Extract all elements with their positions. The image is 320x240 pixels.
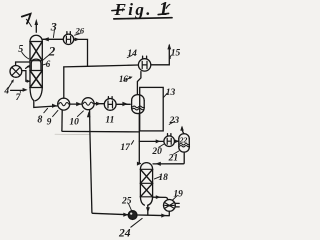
pipe: vertical below exchanger E9 to line 17 [61,110,63,131]
feed pipe 7 into column C1 [11,88,28,92]
box 13 [140,87,164,130]
svg-text:17: 17 [120,143,131,153]
column C18 packing sections [140,169,152,197]
exchanger E19 (circle with X) [164,200,180,212]
exchanger E9 (circle with wavy coil) [58,98,70,110]
label 24 [118,218,142,239]
reboiler exchanger E5 (circle with X) [10,66,22,78]
pipe: reboiler return to column C1 [22,71,31,83]
exchanger E10 (circle with wavy coil) [82,98,94,110]
reflux drum V22 [179,134,190,152]
pipe: down from line into exchanger 9 top [63,67,65,98]
svg-text:7: 7 [16,93,22,103]
label 7 [16,91,22,103]
svg-text:25: 25 [121,197,132,207]
label 15 [170,48,180,58]
pipe 21: drum bottom to column 18 top [153,152,184,166]
condenser U14 (circle with H) [138,56,150,71]
line 17 horizontal [62,131,139,132]
pipe: vertical below exchanger E10 down to bottom loop [87,110,128,217]
label 2 [43,44,56,60]
figure title Fig.1 [112,0,172,20]
column C1 packing section X1 [30,42,42,61]
svg-text:3: 3 [50,20,57,34]
label 1 (top, 7-shaped numeral with leader) [22,14,32,27]
svg-text:15: 15 [171,48,181,58]
pipe 16: condenser 14 down to vessel 12 [137,72,141,95]
flash vessel V12 [132,95,145,114]
column C1 middle chimney tray (item 6) [31,59,41,70]
label 9 [47,110,58,127]
svg-text:10: 10 [69,118,79,128]
bottoms pipe 8 from column C1 [34,101,58,108]
label 4 with arrow [3,79,14,96]
svg-text:2: 2 [48,44,56,59]
svg-text:9: 9 [47,118,52,128]
svg-text:14: 14 [127,49,137,59]
pump P25 (filled circle) [128,211,137,220]
pipe: heater 26 to column C1 top (line 3) [43,37,64,41]
pipe: long line to condenser 14 [64,65,139,67]
pipe E10 to E11 [94,102,104,106]
bottom pipe: pump to exchanger 19 [137,211,169,217]
label 26 [75,26,85,36]
label 22 inside drum [179,135,188,144]
label 25 [121,197,132,211]
label 14 [127,49,137,59]
heater E11 (circle with H symbol) [104,97,116,111]
svg-text:11: 11 [105,115,114,125]
label 5 [18,44,29,59]
faint bleed line [55,133,90,135]
pipe: vessel 12 bottom down to column 18 (line 17) [137,113,142,165]
pipe: line to condenser 20 [139,139,164,143]
vent 23 from drum top [180,126,184,134]
column 18 bottom outlet with down arrow [146,205,150,215]
label 21 [168,151,179,163]
pipe: heater 26 right, down to cross line [74,38,88,67]
column C18 (right column) [140,163,152,206]
svg-text:18: 18 [158,173,168,183]
label 13 [163,88,175,98]
label 10 [69,111,83,128]
svg-text:21: 21 [168,153,179,163]
small tick near reboiler top-right [26,67,28,69]
label 6 [43,59,51,69]
svg-text:20: 20 [151,147,162,157]
svg-text:24: 24 [118,227,131,239]
condenser U20 (circle with H) [164,134,175,147]
label 8 [37,108,47,125]
pipe condenser 20 to drum 22 [175,140,179,144]
pipe: column C1 to reboiler top [16,62,30,65]
label 3 [50,20,57,38]
heater U26 (circle with H symbol) [63,32,73,45]
arrow stub out of column left at 66 [27,65,30,68]
label 23 [169,116,180,126]
overhead vent line from C1 top [35,19,39,32]
pipe E9 to E10 [70,102,82,106]
column C1 (distillation column, left) [30,35,42,100]
label 11 [105,115,114,125]
pipe: condenser 14 out to vent 15 [151,44,171,65]
label 19 [173,190,184,200]
column C1 packing section X2 [30,71,42,88]
svg-text:22: 22 [179,135,188,144]
svg-text:8: 8 [37,114,42,125]
label 18 [154,173,168,183]
label 16 with arrow [119,74,133,84]
label 17' [120,141,133,153]
pipe: column 18 side to exchanger 19 [153,195,168,199]
label 20 [151,144,163,157]
pipe E11 to vessel 12 [116,102,130,107]
